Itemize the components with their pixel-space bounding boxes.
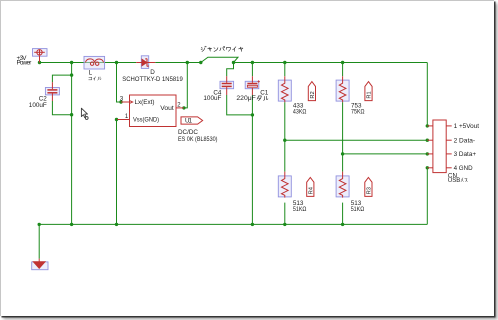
svg-text:4 GND: 4 GND — [454, 165, 474, 172]
label IC pin names — [133, 99, 174, 124]
selection box ground — [32, 262, 48, 270]
tag R1 — [365, 82, 372, 101]
resistor R4 513 — [282, 172, 289, 198]
pin 1 Vss stub — [117, 119, 129, 121]
label +3V Power — [17, 55, 32, 66]
svg-text:Power: Power — [17, 60, 32, 67]
node C1 top — [251, 61, 254, 64]
svg-text:U1: U1 — [185, 118, 192, 125]
wire right rail down to CN pin1 — [426, 63, 428, 126]
svg-text:R4: R4 — [309, 187, 315, 194]
wire rail to R2 — [284, 63, 286, 77]
label U1 texts — [178, 118, 218, 143]
svg-text:100uF: 100uF — [29, 102, 47, 109]
label CN USB — [448, 172, 467, 184]
resistor R2 433 — [282, 76, 289, 102]
svg-text:SCHOTTKY-D 1N5819: SCHOTTKY-D 1N5819 — [122, 76, 183, 83]
tag R2 — [308, 82, 315, 101]
selection box R2 — [278, 80, 291, 101]
svg-text:ES 0K (BL8530): ES 0K (BL8530) — [178, 136, 218, 143]
label C4 — [203, 90, 221, 102]
label coil katakana — [89, 77, 101, 81]
node bus R4 column — [283, 223, 286, 226]
node Vout pin — [182, 106, 185, 109]
label R3 value — [351, 200, 365, 213]
node coil-diode-Lx — [115, 61, 118, 64]
svg-text:51KΩ: 51KΩ — [351, 206, 365, 213]
label R4 value — [293, 200, 307, 213]
CN pin3 stubs — [427, 153, 451, 155]
wire C4 bottom branch — [227, 95, 253, 115]
node bus C1 column — [251, 223, 254, 226]
svg-text:R2: R2 — [310, 91, 316, 98]
tag R3 — [365, 177, 372, 196]
node bus R3 column — [341, 223, 344, 226]
node Vss pin — [115, 118, 118, 121]
svg-text:43KΩ: 43KΩ — [293, 108, 307, 115]
node C2 branch top — [70, 73, 73, 76]
svg-text:Vss(GND): Vss(GND) — [133, 117, 159, 124]
mouse cursor — [81, 108, 88, 119]
node jumper left — [199, 61, 202, 64]
wire rail to R1 — [342, 63, 344, 77]
label jumper wire katakana — [201, 46, 243, 51]
wire C2 top branch — [52, 75, 71, 82]
svg-text:C1: C1 — [260, 90, 269, 97]
selection box C2 — [45, 88, 59, 95]
node C2 branch bottom — [70, 113, 73, 116]
resistor R3 513 — [339, 172, 346, 198]
node CN pin4 — [426, 166, 429, 169]
node R1 top — [341, 61, 344, 64]
selection box power — [33, 49, 48, 57]
wire coil out to Lx pin — [117, 63, 122, 103]
node Vout rail — [186, 61, 189, 64]
capacitor C4 — [222, 76, 232, 95]
capacitor C1 tantalum — [247, 76, 260, 95]
svg-text:L: L — [89, 70, 93, 77]
wire CN pin4 down to ground bus — [426, 168, 428, 225]
selection box R1 — [336, 80, 349, 101]
selection box R3 — [336, 176, 349, 197]
node Data+ tap — [341, 152, 344, 155]
svg-text:51KΩ: 51KΩ — [293, 206, 307, 213]
wire R3 to ground bus — [342, 203, 344, 225]
inductor L coil — [85, 59, 103, 66]
CN pin4 stubs — [427, 167, 451, 169]
svg-text:220μF: 220μF — [236, 95, 256, 102]
node Lx pin — [119, 100, 122, 103]
svg-text:2 Data-: 2 Data- — [454, 138, 476, 145]
wire diode cathode to jumper left — [155, 62, 201, 64]
pin 2 Vout stub — [176, 107, 184, 109]
node R2 top — [283, 61, 286, 64]
selection box C4 — [220, 81, 234, 88]
label CN pin names — [454, 123, 480, 172]
node bus C2 column — [70, 223, 73, 226]
connector CN body — [433, 120, 446, 173]
wire jumper right to top-right corner — [234, 62, 428, 64]
wire ground drop — [38, 224, 40, 258]
selection box diode — [141, 56, 148, 69]
selection box coil — [84, 56, 105, 69]
svg-text:R3: R3 — [367, 187, 373, 194]
diode D schottky 1N5819 — [136, 59, 155, 67]
wire C2 bottom branch — [52, 101, 71, 115]
wire Data- net — [285, 139, 428, 141]
wire Vss pin to ground bus — [116, 120, 118, 225]
ground symbol — [33, 259, 45, 269]
node CN pin3 — [426, 152, 429, 155]
svg-text:R1: R1 — [367, 91, 373, 98]
pin 3 Lx stub — [121, 101, 133, 104]
node C2 column top — [70, 61, 73, 64]
node power junction — [38, 61, 41, 64]
selection box R4 — [278, 176, 291, 197]
label C1 — [236, 90, 268, 102]
svg-text:100uF: 100uF — [203, 95, 221, 102]
U1 reference flag — [181, 117, 203, 124]
node C4-C1 bottom — [251, 113, 254, 116]
label IC pin numbers — [120, 96, 181, 120]
svg-text:1: 1 — [125, 114, 129, 120]
node Data- tap — [283, 139, 286, 142]
wire R4 to ground bus — [284, 203, 286, 225]
svg-text:Vout: Vout — [160, 105, 174, 112]
wire jumper bridge — [201, 57, 238, 62]
wire ground bus — [39, 223, 427, 225]
capacitor C2 — [47, 82, 57, 101]
label C2 — [29, 95, 47, 109]
node ground bus left corner — [38, 223, 41, 226]
wire C2 column vertical — [71, 63, 73, 225]
CN pin1 stubs — [427, 125, 451, 127]
svg-text:3 Data+: 3 Data+ — [454, 151, 477, 158]
selection box C1 — [245, 81, 259, 88]
wire C1 top lead — [251, 63, 253, 77]
label R2 value — [293, 102, 307, 115]
wire C4 top branch — [227, 63, 234, 77]
CN pin2 stubs — [427, 139, 451, 141]
node CN pin2 — [426, 139, 429, 142]
wire R2 to R4 — [284, 102, 286, 171]
node CN pin1 — [426, 124, 429, 127]
svg-text:75KΩ: 75KΩ — [351, 108, 365, 115]
node bus Vss column — [115, 223, 118, 226]
svg-text:3: 3 — [120, 96, 124, 102]
svg-text:1 +5Vout: 1 +5Vout — [454, 123, 480, 130]
wire Vout pin up to rail — [184, 63, 187, 108]
wire C1 column to ground bus — [251, 95, 253, 224]
wire Data+ net — [343, 153, 428, 155]
resistor R1 753 — [339, 76, 346, 102]
svg-text:Lx(Ext): Lx(Ext) — [135, 99, 155, 106]
wire main +3V rail — [40, 62, 137, 64]
wire R1 to R3 — [342, 102, 344, 171]
power symbol +3V — [34, 50, 45, 63]
svg-text:USB: USB — [448, 177, 460, 184]
tag R4 — [307, 177, 314, 196]
label R1 value — [351, 102, 365, 115]
node jumper right — [232, 61, 235, 64]
op-amp U1 IC body — [130, 95, 177, 127]
